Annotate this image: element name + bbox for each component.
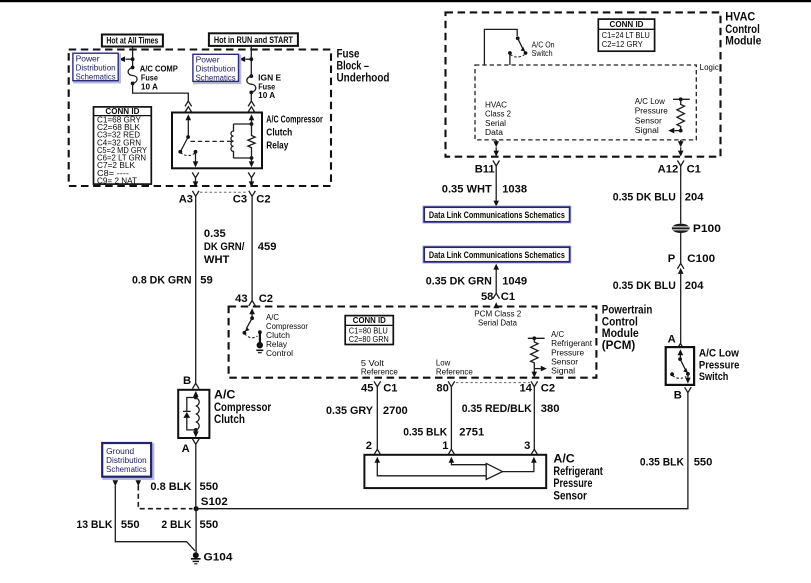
svg-text:43: 43 xyxy=(235,293,247,305)
svg-text:C1: C1 xyxy=(501,291,515,303)
wire 80 to sensor pin1: 0.35 BLK 2751 xyxy=(403,387,484,450)
svg-text:A/C Low: A/C Low xyxy=(699,348,739,360)
58 C1 connector into PCM xyxy=(481,291,515,308)
svg-text:Pressure: Pressure xyxy=(635,107,668,116)
svg-text:C1=24 LT BLU: C1=24 LT BLU xyxy=(602,31,650,40)
wire C3/C2 down to PCM: 0.35 DK GRN/WHT 459 xyxy=(204,196,277,300)
svg-text:0.35 BLK: 0.35 BLK xyxy=(640,456,684,468)
svg-text:C1: C1 xyxy=(687,163,701,175)
wire A12 out of hvac xyxy=(678,140,684,157)
svg-text:(PCM): (PCM) xyxy=(602,338,636,352)
svg-text:A12: A12 xyxy=(658,163,679,175)
connector P C100 xyxy=(668,253,715,274)
relay control label xyxy=(266,313,308,358)
svg-text:Schematics: Schematics xyxy=(106,465,147,474)
svg-text:0.35 DK GRN: 0.35 DK GRN xyxy=(426,276,492,288)
A/C compressor clutch box xyxy=(178,390,209,438)
svg-text:B11: B11 xyxy=(475,163,495,175)
svg-text:DK GRN/: DK GRN/ xyxy=(204,241,245,253)
conn id table HVAC xyxy=(598,19,654,51)
svg-text:Refrigerant: Refrigerant xyxy=(551,339,593,348)
PCM pin 14 C2 xyxy=(519,381,555,394)
switch label xyxy=(699,348,740,383)
svg-text:0.8 BLK: 0.8 BLK xyxy=(150,481,191,493)
PCM internal sense resistor xyxy=(528,336,545,368)
connector row A3 C3 C2 xyxy=(179,191,271,206)
wire resistor to pin 14 xyxy=(532,369,538,378)
svg-text:5 Volt: 5 Volt xyxy=(361,359,385,368)
svg-text:Signal: Signal xyxy=(551,367,575,376)
svg-text:A/C Compressor: A/C Compressor xyxy=(266,115,323,126)
node to power distribution 2 xyxy=(249,57,253,61)
svg-text:A: A xyxy=(668,333,676,345)
connector 43 C2 xyxy=(235,293,273,306)
hot in run and start box xyxy=(209,33,298,46)
relay U: a/c compressor clutch relay box xyxy=(172,113,262,169)
svg-text:0.35 RED/BLK: 0.35 RED/BLK xyxy=(462,403,532,415)
fuse block underhood dashed box xyxy=(69,50,331,187)
connector A above switch xyxy=(668,333,684,349)
a/c refrigerant pressure sensor box xyxy=(364,455,546,488)
HVAC label xyxy=(725,10,761,48)
svg-text:Control: Control xyxy=(266,349,293,358)
a/c on switch throw arc xyxy=(510,55,524,58)
svg-text:Distribution: Distribution xyxy=(196,65,236,74)
svg-text:C1: C1 xyxy=(383,382,397,394)
svg-text:Switch: Switch xyxy=(699,371,729,383)
svg-text:45: 45 xyxy=(361,382,373,394)
splice S102 xyxy=(194,496,228,511)
svg-text:10 A: 10 A xyxy=(141,83,158,92)
hvac internal sense resistor xyxy=(673,97,690,132)
svg-text:C2: C2 xyxy=(259,293,273,305)
svg-text:Hot at All Times: Hot at All Times xyxy=(106,36,158,46)
svg-text:S102: S102 xyxy=(201,496,228,508)
relay control solid state output xyxy=(256,330,263,352)
svg-text:A: A xyxy=(182,443,190,455)
svg-text:Schematics: Schematics xyxy=(76,72,116,81)
svg-text:A/C: A/C xyxy=(266,313,279,322)
a/c on switch label xyxy=(532,40,555,58)
svg-text:C100: C100 xyxy=(687,253,715,265)
svg-text:0.35 BLK: 0.35 BLK xyxy=(403,427,447,439)
relay coil link dashed xyxy=(191,140,234,142)
svg-text:Sensor: Sensor xyxy=(635,116,662,125)
svg-text:P100: P100 xyxy=(693,223,721,235)
fuse block underhood label xyxy=(337,46,390,84)
svg-text:380: 380 xyxy=(541,403,560,415)
svg-text:204: 204 xyxy=(685,192,704,204)
low pressure switch contacts xyxy=(670,349,691,383)
svg-text:58: 58 xyxy=(481,291,493,303)
svg-text:1038: 1038 xyxy=(502,184,527,196)
svg-text:Pressure: Pressure xyxy=(551,348,584,357)
svg-text:14: 14 xyxy=(519,382,532,394)
svg-text:13 BLK: 13 BLK xyxy=(76,519,112,531)
svg-text:Clutch: Clutch xyxy=(266,128,292,139)
svg-text:10 A: 10 A xyxy=(258,91,275,100)
svg-text:Clutch: Clutch xyxy=(214,412,245,426)
svg-text:204: 204 xyxy=(685,280,704,292)
svg-text:Relay: Relay xyxy=(266,141,288,152)
svg-text:Fuse: Fuse xyxy=(258,82,276,91)
svg-text:3: 3 xyxy=(524,440,530,452)
connector B11 xyxy=(475,161,500,176)
svg-text:0.8 DK GRN: 0.8 DK GRN xyxy=(132,275,192,287)
a/c refrigerant pressure sensor signal label (PCM) xyxy=(551,330,593,376)
svg-text:Data: Data xyxy=(485,128,504,137)
wire 13 BLK 550 to G104 xyxy=(76,486,195,551)
ground distribution schematics box xyxy=(102,443,153,479)
wire A3 down to clutch: 0.8 DK GRN 59 xyxy=(132,196,213,383)
svg-text:Pressure: Pressure xyxy=(699,359,740,371)
relay switch output xyxy=(193,150,199,167)
sense tap arrow left xyxy=(668,128,680,134)
connector link dotted 80-14 xyxy=(456,382,530,384)
svg-text:Distribution: Distribution xyxy=(106,456,147,465)
svg-text:Module: Module xyxy=(725,34,761,48)
svg-text:1: 1 xyxy=(442,440,448,452)
logic dashed box xyxy=(475,65,696,140)
svg-text:PCM Class 2: PCM Class 2 xyxy=(474,309,521,318)
svg-text:1049: 1049 xyxy=(502,276,527,288)
a/c on switch xyxy=(484,29,527,65)
grommet P100 xyxy=(672,223,721,235)
wire P100 to C100 xyxy=(680,233,682,263)
conn id table fuse block xyxy=(94,107,152,186)
sense tap arrow right xyxy=(534,366,547,372)
PCM label xyxy=(602,302,653,352)
conn id table PCM xyxy=(345,316,393,345)
sensor internal amp xyxy=(375,457,537,480)
powertrain control module dashed box xyxy=(229,307,597,378)
svg-text:C2: C2 xyxy=(256,194,270,206)
relay control throw arc xyxy=(245,334,258,338)
svg-text:Underhood: Underhood xyxy=(337,71,390,85)
svg-text:A/C: A/C xyxy=(551,330,564,339)
svg-text:0.35 DK BLU: 0.35 DK BLU xyxy=(613,192,676,204)
svg-text:550: 550 xyxy=(121,519,140,531)
clutch flyback diode xyxy=(183,398,196,430)
connector B above clutch xyxy=(183,375,199,389)
data link communications schematics box 1 xyxy=(423,206,571,223)
svg-text:Compressor: Compressor xyxy=(266,322,308,331)
wire from hot at all times to fuse xyxy=(132,47,134,68)
fuse A/C COMP 10A xyxy=(128,64,178,91)
wire B11 to data link: 0.35 WHT 1038 xyxy=(442,166,527,207)
relay control driver switch xyxy=(243,308,255,334)
svg-text:Data Link Communications Schem: Data Link Communications Schematics xyxy=(429,250,565,260)
svg-text:C2=12 GRY: C2=12 GRY xyxy=(602,40,644,49)
svg-text:CONN ID: CONN ID xyxy=(610,20,644,29)
connector link dotted xyxy=(200,191,248,193)
clutch coil xyxy=(193,391,199,432)
svg-text:Logic: Logic xyxy=(700,63,719,72)
relay switch throw arc xyxy=(181,153,196,156)
relay label xyxy=(266,115,323,152)
svg-text:Distribution: Distribution xyxy=(76,64,116,73)
svg-text:Ground: Ground xyxy=(106,447,134,456)
svg-text:Relay: Relay xyxy=(266,340,287,349)
svg-text:Power: Power xyxy=(76,55,100,64)
svg-text:0.35 GRY: 0.35 GRY xyxy=(326,405,374,417)
5 volt reference label xyxy=(361,359,398,377)
clutch output arrow xyxy=(193,430,199,438)
svg-text:2: 2 xyxy=(366,440,372,452)
svg-text:Sensor: Sensor xyxy=(551,357,578,366)
wire 58 C1 to data link: 0.35 DK GRN 1049 xyxy=(426,264,527,294)
svg-text:CONN ID: CONN ID xyxy=(353,316,386,325)
sensor pin 1 connector xyxy=(442,440,454,455)
svg-text:Hot in RUN and START: Hot in RUN and START xyxy=(214,35,293,45)
hvac class 2 serial data label xyxy=(485,100,511,137)
svg-text:Reference: Reference xyxy=(361,368,398,377)
wire IGN E fuse to relay coil input xyxy=(250,92,252,100)
wire clutch to S102: 0.8 BLK 550 xyxy=(150,444,218,508)
wire 45 to sensor pin2: 0.35 GRY 2700 xyxy=(326,387,408,450)
power distribution schematics box 1 xyxy=(73,53,120,82)
low pressure switch throw arc xyxy=(673,376,687,379)
svg-text:Low: Low xyxy=(436,358,451,367)
svg-text:G104: G104 xyxy=(204,551,234,563)
svg-text:0.35 WHT: 0.35 WHT xyxy=(442,184,492,196)
svg-text:C9= 2 NAT: C9= 2 NAT xyxy=(97,177,137,186)
sensor pin 3 connector xyxy=(524,440,538,455)
PCM pin 45 C1 xyxy=(361,381,397,394)
connector A12 C1 xyxy=(658,161,701,176)
wire from hot in run to IGN E fuse xyxy=(250,46,252,76)
svg-text:Data Link Communications Schem: Data Link Communications Schematics xyxy=(429,210,565,220)
svg-text:Serial: Serial xyxy=(485,119,506,128)
wire 14 to sensor pin3: 0.35 RED/BLK 380 xyxy=(462,387,560,450)
fuse IGN E 10A xyxy=(247,73,282,100)
dashed ground wire to S102 xyxy=(138,486,192,509)
wire switch B to S102: 0.35 BLK 550 xyxy=(640,456,712,468)
svg-text:Fuse: Fuse xyxy=(141,73,159,82)
sensor label xyxy=(553,452,603,503)
svg-text:A/C COMP: A/C COMP xyxy=(140,64,179,73)
wire A12 to P100: 0.35 DK BLU 204 xyxy=(613,166,704,224)
low reference label xyxy=(436,358,473,376)
data link communications schematics box 2 xyxy=(423,246,571,263)
svg-text:2 BLK: 2 BLK xyxy=(161,519,191,531)
wire 2 BLK 550 S102 to G104 xyxy=(161,509,218,553)
svg-text:550: 550 xyxy=(694,456,713,468)
a/c low pressure switch box xyxy=(666,347,694,385)
svg-text:550: 550 xyxy=(200,519,219,531)
node to power distribution 1 xyxy=(131,57,135,61)
svg-text:P: P xyxy=(668,253,676,265)
relay switch arm xyxy=(178,114,191,153)
wire fuse to relay coil-switch input xyxy=(133,83,189,100)
svg-text:2751: 2751 xyxy=(459,427,484,439)
power distribution schematics box 2 xyxy=(193,54,240,83)
HVAC dashed box xyxy=(446,12,721,156)
wire B11 out of logic xyxy=(493,140,499,157)
connector B below switch xyxy=(674,387,691,401)
svg-text:Clutch: Clutch xyxy=(266,331,290,340)
svg-text:59: 59 xyxy=(200,275,212,287)
svg-text:C2: C2 xyxy=(541,382,555,394)
svg-text:0.35 DK BLU: 0.35 DK BLU xyxy=(613,280,676,292)
svg-text:IGN E: IGN E xyxy=(258,73,282,82)
svg-text:Switch: Switch xyxy=(532,49,553,58)
svg-text:0.35: 0.35 xyxy=(204,228,226,240)
svg-text:459: 459 xyxy=(258,241,277,253)
svg-text:B: B xyxy=(674,389,682,401)
svg-text:WHT: WHT xyxy=(204,254,230,266)
svg-text:Class 2: Class 2 xyxy=(485,110,511,119)
ground ref arrows xyxy=(113,480,119,486)
clutch label xyxy=(214,388,271,426)
S102 bus wire to pressure switch xyxy=(196,393,688,509)
PCM pin 80 xyxy=(436,381,454,394)
svg-text:A/C On: A/C On xyxy=(532,40,555,49)
sensor pin 2 connector xyxy=(366,440,381,455)
svg-text:Sensor: Sensor xyxy=(553,488,587,502)
svg-text:Power: Power xyxy=(196,56,220,65)
svg-text:2700: 2700 xyxy=(383,405,408,417)
svg-text:A3: A3 xyxy=(179,194,193,206)
svg-text:Reference: Reference xyxy=(436,368,473,377)
PCM class 2 serial data label xyxy=(474,309,521,327)
a/c low pressure sensor signal label (HVAC) xyxy=(635,97,668,135)
svg-text:A/C Low: A/C Low xyxy=(635,97,665,106)
svg-text:C3: C3 xyxy=(233,194,247,206)
wire C100 to switch: 0.35 DK BLU 204 xyxy=(613,274,704,344)
svg-text:80: 80 xyxy=(436,382,448,394)
svg-text:Schematics: Schematics xyxy=(196,73,236,82)
svg-text:550: 550 xyxy=(200,481,219,493)
relay coil with resistor xyxy=(231,114,255,167)
ground G104 xyxy=(191,551,233,564)
svg-text:Serial Data: Serial Data xyxy=(478,319,518,328)
svg-text:Signal: Signal xyxy=(635,126,659,135)
relay output connectors below box xyxy=(192,172,255,187)
svg-text:C2=80 GRN: C2=80 GRN xyxy=(349,335,389,344)
svg-text:B: B xyxy=(183,375,191,387)
connector A below clutch xyxy=(182,439,200,455)
svg-text:HVAC: HVAC xyxy=(485,100,507,109)
hot at all times box xyxy=(102,35,163,47)
